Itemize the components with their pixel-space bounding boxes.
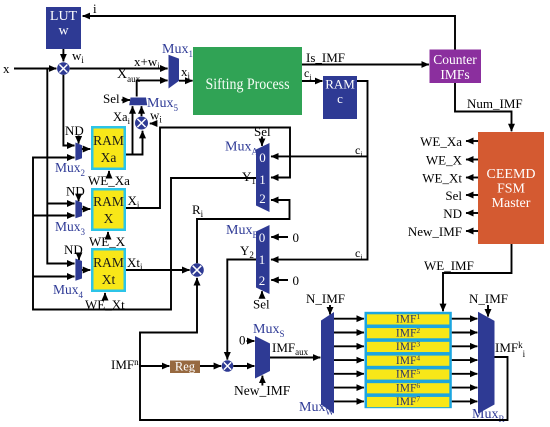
- New_IMF stub into MuxS: [234, 376, 291, 398]
- CEEMD output stub WE_Xa: [420, 134, 478, 149]
- N_IMF stub into MuxR: [469, 291, 508, 317]
- w_i stub into M2: [150, 108, 163, 125]
- wire Num_IMF from Counter to CEEMD FSM: [455, 83, 523, 131]
- block CEEMD FSM Master: [478, 132, 544, 244]
- CEEMD output stub Sel: [445, 188, 478, 203]
- svg-text:Reg: Reg: [175, 360, 196, 374]
- svg-text:Sifting Process: Sifting Process: [206, 76, 290, 93]
- svg-text:ND: ND: [65, 123, 84, 138]
- multiplier M4: [222, 360, 234, 372]
- wire IMF_aux from MuxS to MuxW: [270, 340, 320, 358]
- wire c_i feedback from RAM c down: [271, 81, 368, 262]
- wire R_i from M3 up to MuxA input 2: [192, 200, 290, 263]
- svg-text:N_IMF: N_IMF: [469, 291, 508, 306]
- block RAM X: [91, 188, 126, 231]
- svg-text:RAM: RAM: [325, 77, 355, 92]
- svg-text:Counter: Counter: [433, 52, 477, 67]
- block RAM c: [323, 76, 357, 119]
- svg-text:New_IMF: New_IMF: [408, 224, 462, 239]
- IMF register stack: [365, 312, 452, 408]
- wire Mux3 output to RAM X: [82, 208, 90, 210]
- svg-text:0: 0: [259, 230, 266, 245]
- svg-text:LUT: LUT: [50, 9, 78, 24]
- register Reg: [170, 360, 200, 374]
- N_IMF stub into MuxW: [306, 291, 345, 315]
- svg-text:1: 1: [259, 252, 266, 267]
- mux MuxS: [253, 322, 284, 379]
- svg-text:N_IMF: N_IMF: [306, 291, 345, 306]
- WE_Xa stub into RAM Xa: [88, 171, 130, 188]
- block Counter IMFs: [430, 50, 482, 84]
- svg-text:RAM: RAM: [93, 194, 124, 209]
- mux Mux1: [162, 42, 193, 89]
- svg-text:x+wi: x+wi: [134, 54, 160, 71]
- wire Y2 output of MuxB down to multiplier M4: [227, 243, 256, 360]
- svg-text:CEEMD: CEEMD: [487, 167, 536, 182]
- svg-text:Mux1: Mux1: [162, 42, 193, 59]
- mux MuxR (read): [472, 312, 504, 424]
- wire Reg output to M4: [200, 365, 221, 367]
- 0 stub into MuxB input 0: [271, 230, 299, 245]
- svg-text:Sel: Sel: [103, 91, 120, 106]
- wire X_i loop from RAM X to MuxA input 1: [126, 128, 290, 211]
- svg-text:x: x: [3, 61, 10, 76]
- wire Mux1 output x_i to Sifting Process: [179, 64, 193, 81]
- svg-text:Xa: Xa: [101, 150, 117, 165]
- ND stub into Mux3: [66, 184, 85, 202]
- mux MuxA: [225, 140, 270, 213]
- svg-text:2: 2: [259, 273, 266, 288]
- wires IMF stack outputs to MuxR: [452, 319, 478, 402]
- svg-text:WE_Xt: WE_Xt: [422, 171, 462, 186]
- svg-text:IMFs: IMFs: [440, 67, 469, 82]
- CEEMD output stub New_IMF: [408, 224, 478, 239]
- svg-text:Is_IMF: Is_IMF: [306, 50, 345, 65]
- multiplier M2 (Xa_i * w_i): [135, 117, 148, 130]
- svg-text:X: X: [104, 211, 114, 226]
- svg-text:WE_IMF: WE_IMF: [424, 258, 474, 273]
- WE_X stub into RAM X: [89, 232, 126, 249]
- svg-text:c: c: [337, 91, 343, 106]
- Sel stub into MuxA: [254, 124, 271, 146]
- svg-text:Num_IMF: Num_IMF: [467, 96, 523, 111]
- mux MuxW (demux write): [299, 312, 334, 417]
- wire WE_IMF from CEEMD bottom to IMF stack: [424, 244, 512, 311]
- svg-text:FSM: FSM: [497, 182, 526, 197]
- wire i (Counter IMFs top to LUT): [83, 1, 455, 50]
- LUT W: [46, 7, 81, 49]
- mux Mux3: [55, 200, 86, 237]
- multiplier M1 (x * w_i): [57, 62, 70, 75]
- wire Mux4 output to RAM Xt: [82, 269, 90, 271]
- block Sifting Process: [193, 47, 302, 115]
- wire M4 output to MuxS: [233, 365, 254, 367]
- wires MuxW outputs to IMF stack: [334, 319, 364, 402]
- node IMF^n input: [111, 357, 169, 372]
- ND stub into Mux4: [64, 242, 83, 260]
- svg-text:2: 2: [259, 191, 266, 206]
- svg-text:WE_X: WE_X: [426, 153, 463, 168]
- node x input wire: [3, 61, 56, 76]
- svg-text:0: 0: [293, 273, 300, 288]
- mux Mux4: [53, 259, 84, 301]
- svg-text:1: 1: [259, 172, 266, 187]
- svg-text:Master: Master: [492, 196, 531, 211]
- mux Mux2: [55, 143, 85, 179]
- wire IMF^k_i output feedback loop to M3: [140, 278, 526, 420]
- svg-text:Sel: Sel: [253, 297, 270, 312]
- ND stub into Mux2: [65, 123, 84, 144]
- svg-text:0: 0: [259, 150, 266, 165]
- svg-text:ND: ND: [66, 184, 85, 199]
- CEEMD output stub ND: [443, 206, 478, 221]
- multiplier M3 (Xt_i * IMF feedback): [190, 263, 204, 277]
- svg-text:Sel: Sel: [445, 188, 462, 203]
- wire Mux2 output to RAM Xa: [82, 148, 90, 150]
- wire X_aux from Mux5 to Mux1: [117, 67, 168, 97]
- wire c_i to RAM c: [302, 66, 322, 82]
- svg-text:0: 0: [239, 333, 246, 348]
- svg-text:ND: ND: [443, 206, 462, 221]
- wire M1 output down to Mux2 input: [63, 75, 74, 146]
- wire Is_IMF to Counter IMFs: [302, 50, 429, 65]
- wire LUT to multiplier M1, label w_i: [63, 48, 84, 65]
- svg-text:RAM: RAM: [93, 133, 124, 148]
- svg-text:ND: ND: [64, 242, 83, 257]
- svg-text:w: w: [58, 24, 69, 39]
- block RAM Xa: [91, 126, 126, 170]
- 0 stub into MuxS: [239, 333, 254, 348]
- wire Y1 output of MuxA feedback loop: [33, 158, 256, 310]
- svg-text:RAM: RAM: [93, 255, 124, 270]
- wire Xt_i from RAM Xt to multiplier M3: [126, 255, 190, 272]
- Sel stub into Mux5: [103, 91, 130, 106]
- Sel stub into MuxB: [253, 291, 270, 311]
- svg-text:0: 0: [293, 230, 300, 245]
- svg-text:i: i: [93, 1, 97, 16]
- wire Xa_i from RAM Xa to Mux5 and M2: [113, 106, 143, 154]
- svg-text:Xt: Xt: [102, 272, 116, 287]
- svg-text:WE_Xa: WE_Xa: [420, 134, 462, 149]
- mux Mux5: [129, 96, 178, 113]
- mux MuxB: [226, 223, 270, 294]
- CEEMD output stub WE_Xt: [422, 171, 478, 186]
- wire x branch down to Mux3/Mux4: [47, 69, 74, 264]
- 0 stub into MuxB input 2: [271, 273, 299, 288]
- wire M1 output right, label x+w_i: [70, 54, 168, 71]
- block RAM Xt: [91, 248, 126, 292]
- WE_Xt stub into RAM Xt: [85, 293, 125, 312]
- wire M2 output up to Mux5: [141, 106, 143, 116]
- CEEMD output stub WE_X: [426, 153, 478, 168]
